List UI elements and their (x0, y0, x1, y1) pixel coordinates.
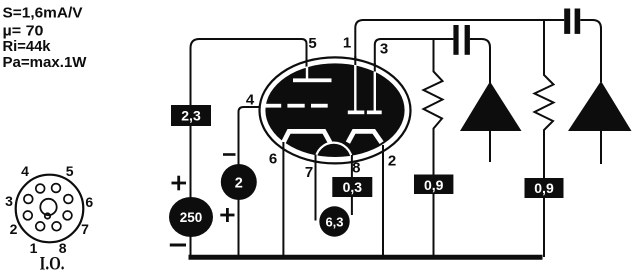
socket label 7 (81, 221, 89, 237)
wire grid lead from pin 4 down (239, 107, 267, 257)
minus sign at anode supply bottom (170, 244, 186, 247)
svg-text:Pa=max.1W: Pa=max.1W (3, 54, 88, 71)
svg-text:6,3: 6,3 (325, 214, 343, 229)
spec text Ri=44k (3, 38, 52, 55)
wire below output triangle 2 (600, 131, 602, 164)
svg-text:2,3: 2,3 (181, 108, 201, 124)
value box 0,9 left (414, 175, 453, 195)
wire anode supply from pin 5 down left rail (191, 39, 307, 257)
diode anode (pin 3) (367, 72, 382, 115)
svg-text:0,3: 0,3 (343, 179, 363, 195)
coupling capacitor C2 (564, 9, 580, 34)
value box 2,3 anode current (171, 105, 211, 126)
plus sign at grid bias bottom (220, 208, 234, 222)
pin 5 lead stub through envelope (306, 56, 308, 67)
svg-text:S=1,6mA/V: S=1,6mA/V (3, 5, 83, 22)
svg-text:0,9: 0,9 (534, 180, 554, 196)
socket label 2 (10, 221, 18, 237)
pin label 4 (246, 91, 255, 108)
svg-text:I.O.: I.O. (40, 254, 65, 275)
output triangle 2 (568, 81, 632, 131)
pin 1 lead stub through envelope (354, 56, 356, 66)
coupling capacitor C1 (453, 25, 470, 55)
svg-text:6: 6 (85, 194, 93, 210)
pin label 5 (308, 35, 316, 52)
wire cathode pin 2 down (382, 145, 384, 256)
svg-text:250: 250 (180, 210, 203, 225)
socket pin 4 hole (36, 184, 45, 193)
svg-text:4: 4 (21, 163, 29, 179)
svg-text:8: 8 (352, 160, 360, 177)
pin label 8 (352, 160, 360, 177)
svg-text:0,9: 0,9 (424, 177, 444, 193)
socket pin 8 hole (52, 222, 61, 231)
output triangle 1 (460, 82, 522, 132)
svg-text:µ= 70: µ= 70 (3, 23, 44, 40)
resistor R2 anode load (535, 20, 554, 257)
grid of triode (pin 4) dashed (264, 104, 328, 108)
svg-text:2: 2 (10, 221, 18, 237)
svg-text:5: 5 (66, 163, 74, 179)
wire pin 3 to coupling capacitor C1 (375, 39, 454, 72)
wire capacitor C1 to output triangle 1 (470, 39, 490, 83)
cathode right (pin 2) (348, 131, 382, 142)
svg-text:1: 1 (343, 35, 351, 52)
value circle 250 anode voltage (169, 197, 213, 237)
socket pin 5 hole (52, 184, 61, 193)
pin label 7 (305, 164, 313, 181)
pin label 1 (343, 35, 351, 52)
wire capacitor C2 to output triangle 2 (580, 20, 601, 82)
svg-text:7: 7 (81, 221, 89, 237)
socket label 4 (21, 163, 29, 179)
pin label 3 (380, 41, 388, 58)
socket outline (16, 175, 84, 243)
tube inner black body (265, 63, 404, 157)
svg-text:Ri=44k: Ri=44k (3, 38, 52, 55)
pin 3 lead stub through envelope (374, 63, 376, 73)
pin label 6 (269, 150, 277, 167)
wire pin 1 to coupling capacitor C2 (355, 20, 564, 66)
svg-text:6: 6 (269, 150, 277, 167)
value circle 6,3 heater voltage (319, 206, 349, 236)
svg-text:3: 3 (380, 41, 388, 58)
svg-text:4: 4 (246, 91, 255, 108)
diode anode (pin 1) (348, 65, 365, 114)
minus sign at grid bias top (223, 153, 236, 156)
svg-text:1: 1 (30, 240, 38, 256)
svg-text:5: 5 (308, 35, 316, 52)
socket pin 6 hole (64, 195, 73, 204)
socket pin 2 hole (23, 211, 32, 220)
svg-text:7: 7 (305, 164, 313, 181)
socket label 3 (5, 193, 13, 209)
resistor R1 anode load (424, 39, 443, 257)
socket name I.O. (40, 254, 65, 275)
socket label 5 (66, 163, 74, 179)
svg-text:2: 2 (235, 176, 243, 192)
svg-text:3: 3 (5, 193, 13, 209)
heater dome (pins 7 8) (316, 143, 352, 161)
spec text Pa=max.1W (3, 54, 88, 71)
wire heater pin 8 down (351, 155, 353, 215)
socket label 6 (85, 194, 93, 210)
spec text mu=70 (3, 23, 44, 40)
value circle 2 grid bias (221, 164, 257, 200)
ground rail (189, 255, 543, 260)
wire below output triangle 1 (489, 131, 491, 162)
socket pin 1 hole (36, 222, 45, 231)
spec text S=1,6mA/V (3, 5, 83, 22)
tube envelope (260, 57, 411, 163)
anode of triode (pin 5) (293, 67, 332, 83)
socket pin 3 hole (24, 195, 33, 204)
value box 0,3 heater current (332, 177, 372, 197)
value box 0,9 right (525, 178, 564, 198)
wire cathode pin 6 down (282, 142, 284, 257)
socket pin 7 hole (63, 211, 72, 220)
svg-text:2: 2 (388, 153, 396, 170)
cathode left (pin 6) (283, 131, 330, 142)
wire heater pin 7 down (315, 155, 317, 221)
socket label 8 (59, 240, 67, 256)
socket label 1 (30, 240, 38, 256)
socket center key hole (40, 199, 56, 219)
pin label 2 (388, 153, 396, 170)
plus sign at anode supply (172, 176, 187, 191)
